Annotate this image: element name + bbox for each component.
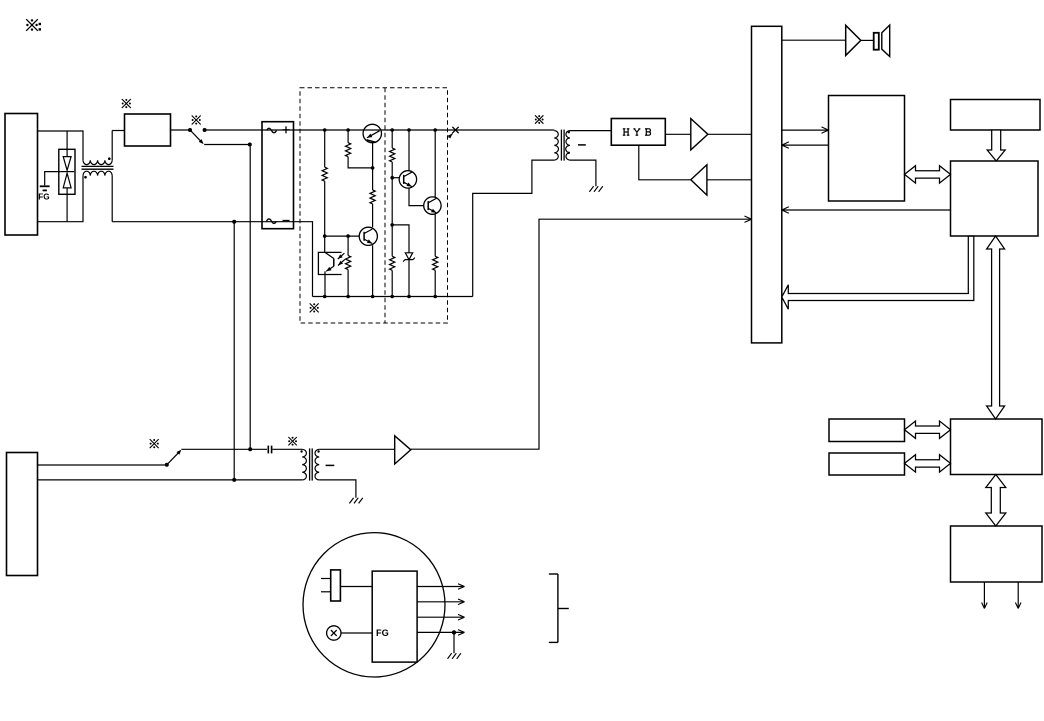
- wire J2 bottom to T3: [38, 478, 303, 482]
- amp A4 speaker amp: [782, 25, 874, 55]
- handset line 3: [417, 614, 464, 620]
- speaker LS1: [874, 25, 890, 56]
- codec box U3: [829, 96, 905, 202]
- switch SW2: [38, 450, 182, 467]
- arrow codec to bus: [782, 142, 829, 148]
- io box U6: [951, 419, 1043, 475]
- label ※ at T2: [535, 115, 544, 124]
- ground at T2: [589, 186, 602, 192]
- arrow amp path to bus: [411, 216, 752, 449]
- amp A1 (send): [665, 119, 751, 150]
- rom box U4: [951, 100, 1041, 131]
- wire SW1 pole to node: [204, 143, 252, 147]
- wire bottom rail of network: [313, 295, 473, 299]
- cpu box U5: [951, 161, 1039, 236]
- hollow arrow codec-cpu: [905, 166, 951, 183]
- resistor R7: [433, 256, 438, 296]
- ground at handset: [448, 653, 461, 659]
- resistor R4: [346, 236, 351, 296]
- hollow arrow key1-io: [905, 421, 951, 438]
- handset line 4: [417, 630, 464, 654]
- wire AC top rail: [205, 129, 555, 131]
- handset circle: [303, 533, 445, 677]
- hollow arrow rom to cpu: [987, 130, 1005, 161]
- break mark on rail (strap): [448, 127, 459, 139]
- transistor Q4: [424, 130, 441, 256]
- transformer T1: [82, 131, 125, 222]
- label ※ at SW2: [150, 439, 159, 448]
- connector J2 (handset jack): [7, 453, 38, 576]
- block B1 (※): [122, 99, 190, 146]
- handset line 2: [417, 599, 464, 605]
- node dots top rail: [323, 128, 437, 132]
- hybrid HYB: [611, 119, 665, 146]
- optocoupler U1: [318, 252, 344, 296]
- wire network out to T2: [473, 160, 555, 296]
- transformer T2: [554, 130, 611, 187]
- ground FG: [38, 172, 60, 202]
- transistor Q2: [359, 227, 377, 296]
- label ※ in dashed box: [310, 303, 319, 312]
- bracket: [549, 574, 569, 642]
- label ※ at T3: [288, 437, 297, 446]
- hollow arrow cpu-io: [987, 236, 1005, 419]
- microphone M: [327, 626, 373, 640]
- svg-text:FG: FG: [38, 193, 49, 202]
- key box 1: [829, 419, 905, 442]
- zener D1: [392, 225, 415, 297]
- wire J1 top to T1: [38, 131, 84, 160]
- wire node down right: [248, 145, 252, 452]
- hollow arrow io-display: [986, 475, 1006, 527]
- wire node down left: [233, 222, 235, 480]
- wire SW2 to C1: [181, 448, 267, 450]
- rectifier BR1: [262, 122, 294, 229]
- handset line 1: [417, 584, 464, 590]
- wire J1 bottom to T1: [38, 176, 84, 222]
- note label ※:: [26, 19, 41, 31]
- switch SW1 (※): [188, 115, 207, 144]
- transistor Q1: [363, 124, 381, 142]
- ground at T3: [349, 498, 362, 504]
- bus/controller U2: [752, 26, 782, 343]
- resistor R1: [322, 130, 327, 252]
- hollow bus arrow from cpu: [782, 236, 974, 309]
- resistor R2: [346, 130, 375, 170]
- handset unit box: [372, 571, 417, 662]
- arrow out 2: [1015, 582, 1021, 609]
- resistor R5: [390, 130, 395, 256]
- transistor Q3: [392, 130, 424, 206]
- arrow cpu to bus: [782, 207, 951, 213]
- arrester E1: [59, 131, 75, 222]
- amp A3 (dial tone): [319, 436, 411, 464]
- dashed box network A: [300, 88, 448, 323]
- resistor R3: [370, 143, 375, 228]
- wire Q2 base: [323, 234, 359, 238]
- svg-text:FG: FG: [376, 628, 389, 638]
- display box U7: [951, 526, 1043, 582]
- wire AC bottom rail / DC minus: [112, 220, 312, 297]
- hollow arrow key2-io: [905, 455, 951, 472]
- arrow bus to codec: [782, 127, 829, 133]
- connector J1 (line jack): [5, 114, 38, 236]
- resistor R6: [390, 256, 395, 296]
- amp A2 (receive): [639, 145, 752, 195]
- receiver R: [321, 570, 372, 601]
- key box 2: [829, 453, 905, 475]
- capacitor C1: [268, 446, 302, 454]
- arrow out 1: [982, 582, 988, 609]
- transformer T3: [300, 448, 356, 497]
